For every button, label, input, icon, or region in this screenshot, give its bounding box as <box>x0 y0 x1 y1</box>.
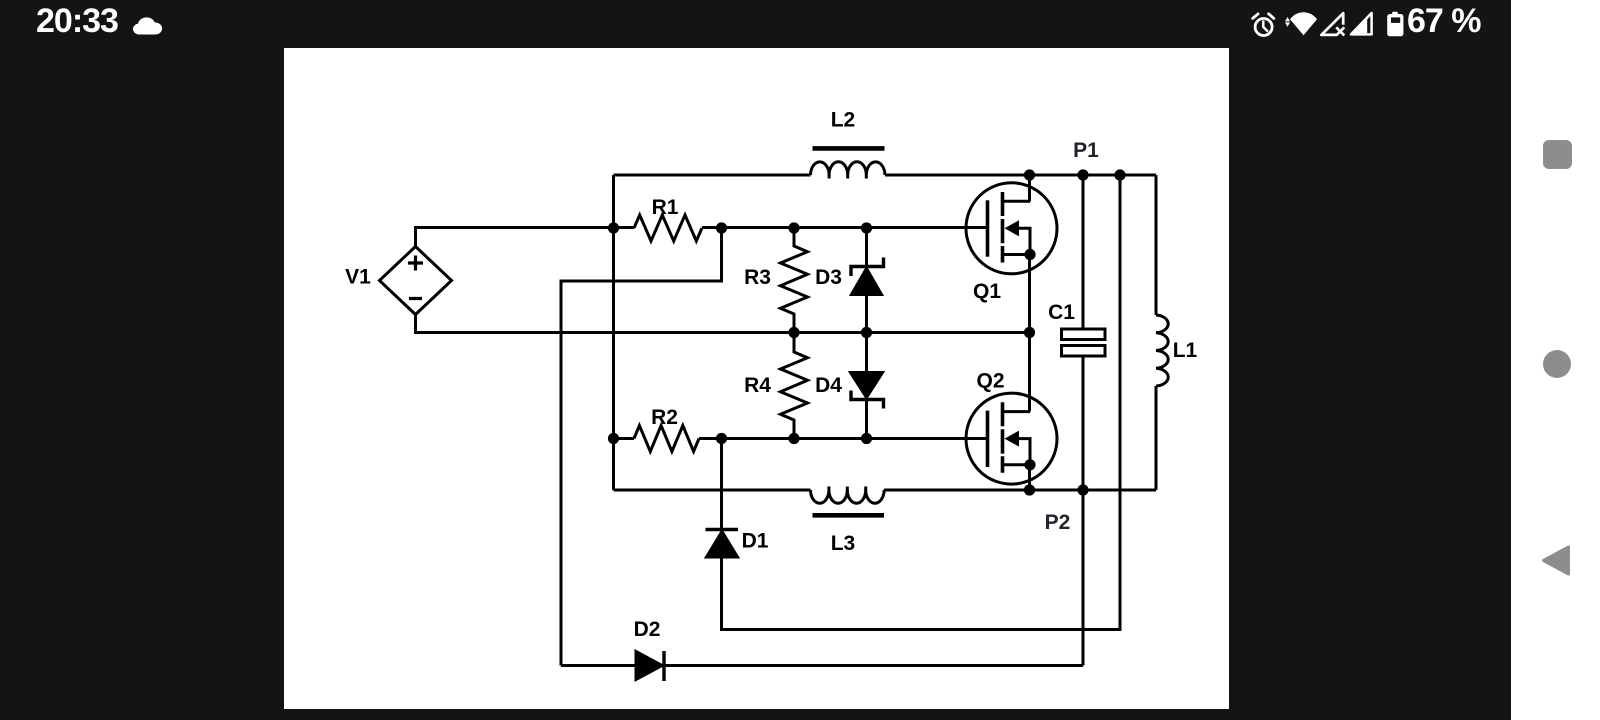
svg-text:P2: P2 <box>1045 511 1071 534</box>
svg-text:R4: R4 <box>744 374 771 397</box>
svg-text:D4: D4 <box>815 374 842 397</box>
svg-text:V1: V1 <box>345 266 371 289</box>
svg-text:R1: R1 <box>652 196 679 219</box>
svg-text:D1: D1 <box>742 530 769 553</box>
svg-text:L3: L3 <box>831 532 856 555</box>
svg-text:C1: C1 <box>1048 301 1075 324</box>
svg-text:D3: D3 <box>815 266 842 289</box>
svg-text:P1: P1 <box>1073 139 1099 162</box>
svg-text:L2: L2 <box>831 109 856 132</box>
svg-text:R3: R3 <box>744 266 771 289</box>
svg-text:D2: D2 <box>634 618 661 641</box>
svg-text:Q1: Q1 <box>973 280 1001 303</box>
svg-text:R2: R2 <box>651 406 678 429</box>
svg-text:Q2: Q2 <box>976 370 1004 393</box>
svg-text:L1: L1 <box>1173 339 1198 362</box>
